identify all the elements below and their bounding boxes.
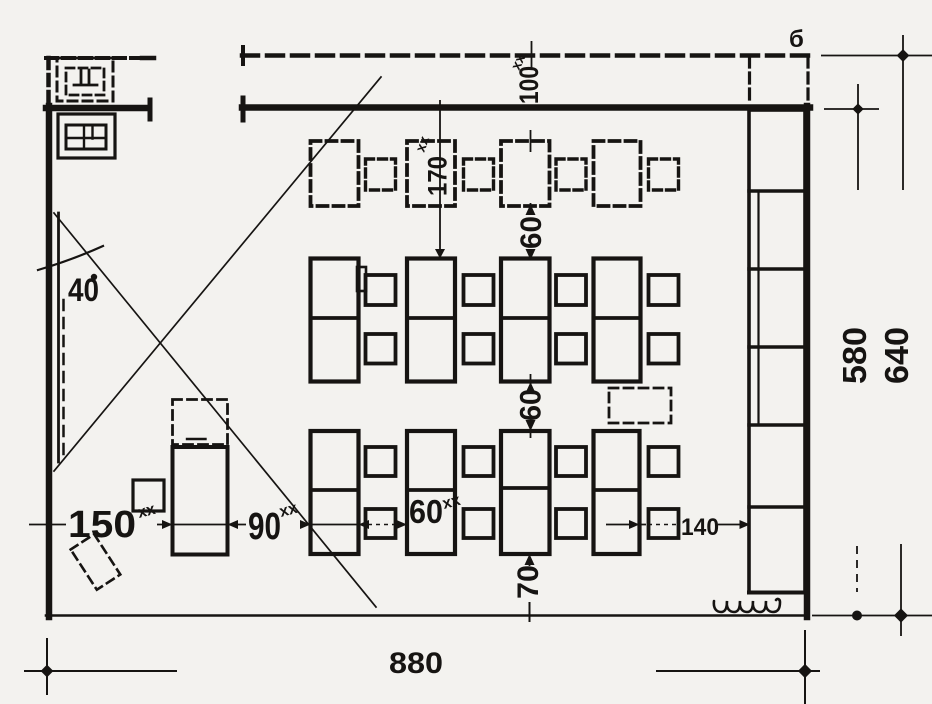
row3 desk 2 — [407, 431, 455, 554]
row3 chair 3 bottom — [556, 509, 586, 538]
dimension 60 lower — [530, 374, 532, 438]
row3 chair 3 top — [556, 447, 586, 476]
radiator coil — [714, 599, 780, 612]
row3 chair 4 bottom — [649, 509, 679, 538]
angle arc — [38, 246, 103, 270]
dimension 100 — [531, 41, 533, 69]
row1 desk 1 dashed — [311, 141, 359, 206]
cabinet bottom edge — [749, 591, 805, 595]
svg-text:140: 140 — [681, 514, 719, 541]
upper sink dashed outer rect — [57, 58, 113, 101]
svg-text:170: 170 — [423, 156, 453, 196]
svg-text:60: 60 — [515, 216, 548, 249]
top-right dashed vertical 2 — [806, 57, 809, 104]
row2 desk 4 — [594, 259, 641, 382]
row1 chair 2 dashed — [464, 159, 494, 190]
svg-text:150: 150 — [68, 504, 136, 546]
arrows on y=525 line — [162, 520, 173, 529]
row2 desk 3 — [501, 259, 550, 382]
chalkboard solid line — [57, 213, 60, 462]
svg-text:60: 60 — [409, 493, 443, 530]
sight line A — [54, 213, 376, 607]
horizontal dimension line y=525 — [29, 516, 750, 533]
row3 desk 3 — [501, 431, 550, 554]
bottom wall — [46, 614, 804, 617]
row2 desk 2 — [407, 259, 455, 382]
row3 chair 1 top — [366, 447, 396, 476]
teacher chair — [133, 480, 164, 511]
row2 desk 1 — [311, 259, 359, 382]
svg-text:640: 640 — [878, 327, 915, 384]
top-left wall end tick — [148, 100, 153, 119]
top dashed projection line — [242, 53, 810, 58]
left wall — [46, 106, 53, 617]
top-left dashed boundary vertical — [46, 58, 51, 103]
row3 chair 2 bottom — [464, 509, 494, 538]
cabinet dividers — [749, 191, 805, 507]
row1 chair 3 dashed — [556, 159, 586, 190]
top dashed line start tick — [241, 47, 245, 64]
teacher demo table dashed rect — [173, 400, 228, 445]
row2 desk1 side tab — [357, 267, 366, 291]
dimension 170 — [439, 100, 441, 258]
right side reference markers bottom — [812, 544, 932, 636]
row2 chair 2 top — [464, 275, 494, 305]
row2 chair 1 bottom — [366, 334, 396, 364]
row3 chair 4 top — [649, 447, 679, 476]
row1 chair 1 dashed — [366, 159, 396, 190]
teacher tribune solid rect — [173, 447, 228, 555]
row3 chair 2 top — [464, 447, 494, 476]
svg-text:90: 90 — [248, 506, 281, 548]
dashed demo position rect — [609, 388, 671, 423]
right side reference markers top — [821, 35, 932, 190]
dimension 70 — [529, 556, 531, 622]
row1 chair 4 dashed — [649, 159, 679, 190]
top-left wall segment — [46, 105, 148, 112]
row3 desk 4 — [594, 431, 640, 554]
dimension 60 upper — [530, 130, 532, 260]
svg-text:60: 60 — [515, 389, 548, 421]
row1 desk 3 dashed — [501, 141, 550, 206]
upper sink symbol strokes — [74, 70, 97, 85]
lower sink grid strokes — [66, 125, 106, 149]
top-left dashed boundary horizontal — [46, 56, 153, 60]
upper sink dashed inner rect — [66, 68, 104, 95]
svg-text:70: 70 — [512, 565, 545, 599]
row2 chair 1 top — [366, 275, 396, 305]
cabinet inner vertical — [757, 191, 759, 425]
row2 chair 4 top — [649, 275, 679, 305]
svg-text:880: 880 — [389, 647, 443, 680]
right wall — [804, 106, 811, 617]
top main wall — [242, 104, 810, 111]
svg-text:580: 580 — [836, 327, 873, 384]
tilted dashed rect — [71, 534, 121, 590]
sight line B — [54, 77, 381, 471]
row1 desk 4 dashed — [594, 141, 641, 206]
svg-text:б: б — [789, 26, 804, 53]
cabinet column outer — [749, 110, 805, 593]
row3 chair 1 bottom — [366, 509, 396, 538]
lower sink inner rect — [66, 125, 106, 149]
row2 chair 3 bottom — [556, 334, 586, 364]
row1 desk 2 dashed — [407, 141, 455, 206]
row2 chair 2 bottom — [464, 334, 494, 364]
top main wall left end tick — [241, 98, 246, 120]
bottom dimension 880 — [24, 630, 820, 704]
chalkboard dashed line — [62, 300, 65, 458]
lower sink outer rect — [58, 114, 115, 158]
top-right dashed vertical 1 — [748, 57, 751, 104]
row2 chair 3 top — [556, 275, 586, 305]
row2 chair 4 bottom — [649, 334, 679, 364]
demo table hatch — [187, 438, 206, 440]
row3 desk 1 — [311, 431, 359, 554]
